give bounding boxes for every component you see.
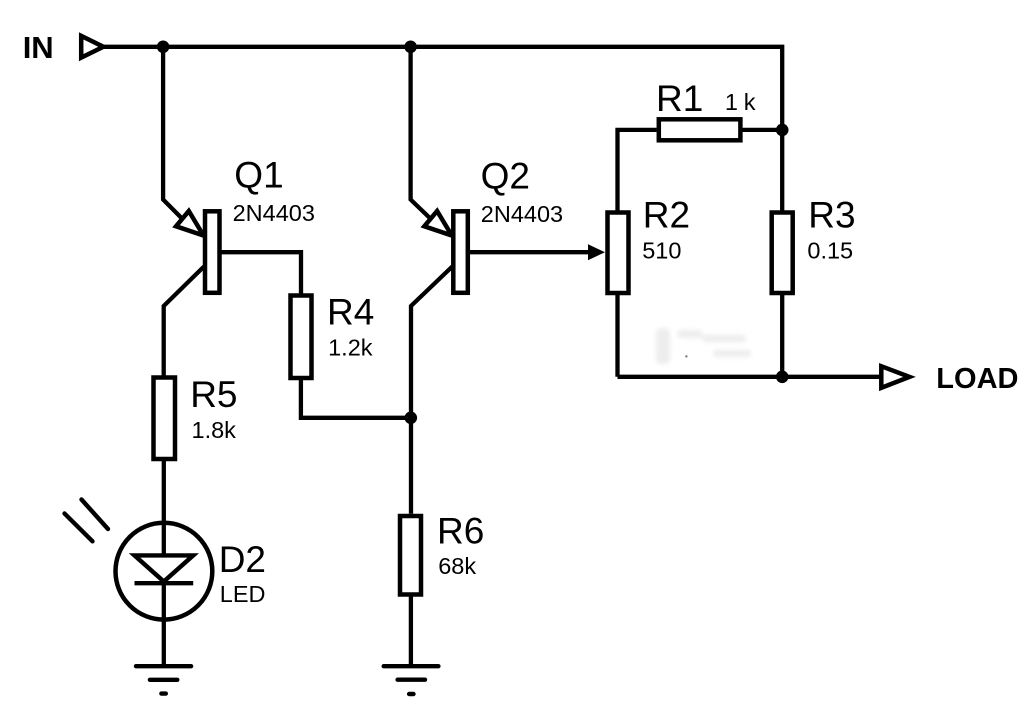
svg-text:1.8k: 1.8k (192, 417, 237, 443)
svg-text:1.2k: 1.2k (328, 335, 373, 361)
svg-text:510: 510 (642, 237, 681, 263)
svg-text:LED: LED (220, 581, 266, 607)
svg-text:R2: R2 (643, 195, 690, 236)
svg-text:1: 1 (725, 89, 738, 115)
svg-text:R6: R6 (437, 511, 484, 552)
svg-text:R1: R1 (656, 78, 703, 119)
svg-text:R4: R4 (327, 292, 374, 333)
svg-text:k: k (744, 89, 756, 115)
svg-text:Q2: Q2 (481, 155, 530, 196)
svg-text:D2: D2 (219, 539, 266, 580)
svg-text:R5: R5 (190, 374, 237, 415)
svg-text:0.15: 0.15 (807, 238, 853, 264)
svg-text:Q1: Q1 (234, 155, 283, 196)
svg-text:68k: 68k (438, 553, 476, 579)
svg-text:R3: R3 (808, 195, 855, 236)
svg-text:IN: IN (23, 30, 54, 65)
svg-text:2N4403: 2N4403 (481, 201, 563, 227)
svg-text:LOAD: LOAD (936, 363, 1018, 395)
svg-text:2N4403: 2N4403 (233, 200, 315, 226)
